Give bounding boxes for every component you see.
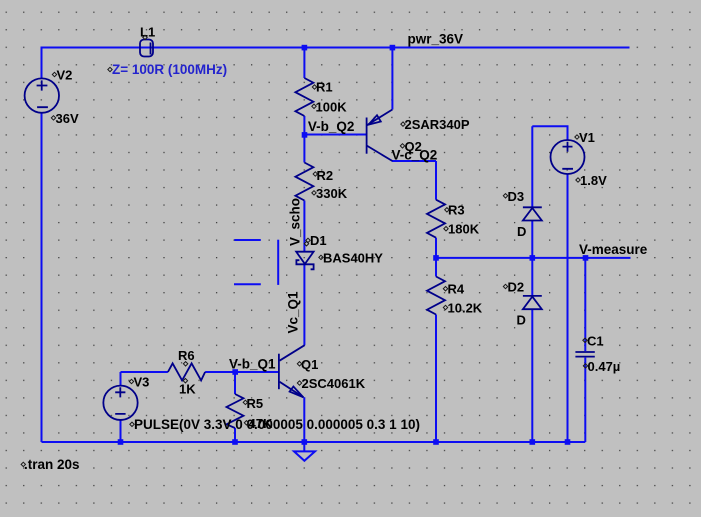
ground xyxy=(294,442,315,461)
node junction rail V3 xyxy=(118,439,124,445)
diode D3 xyxy=(523,207,542,220)
diode D1 schottky xyxy=(296,252,313,270)
svg-text:R2: R2 xyxy=(317,168,334,183)
svg-text:L1: L1 xyxy=(140,24,155,39)
wire R5 leads xyxy=(234,372,236,442)
wire Q2 emitter xyxy=(391,48,393,110)
svg-text:D3: D3 xyxy=(508,189,525,204)
wire V1 bottom xyxy=(567,174,569,442)
svg-text:V-c_Q2: V-c_Q2 xyxy=(392,147,438,162)
svg-text:Z= 100R (100MHz): Z= 100R (100MHz) xyxy=(112,62,227,77)
svg-text:V1: V1 xyxy=(579,130,595,145)
svg-text:R3: R3 xyxy=(448,203,465,218)
svg-text:V2: V2 xyxy=(57,68,73,83)
node junction V-measure C1 xyxy=(583,255,589,261)
wire top rail pwr_36V xyxy=(42,47,630,49)
node junction rail Q1 ground xyxy=(302,439,308,445)
svg-text:D: D xyxy=(517,224,526,239)
wire Q2 collector to R3 xyxy=(392,161,436,200)
svg-text:PULSE(0V 3.3V 0 0.000005 0.000: PULSE(0V 3.3V 0 0.000005 0.000005 0.3 1 … xyxy=(134,417,420,432)
svg-text:.tran 20s: .tran 20s xyxy=(24,457,80,472)
node junction rail D2 xyxy=(530,439,536,445)
svg-text:C1: C1 xyxy=(587,333,604,348)
anchor diamonds xyxy=(21,35,588,466)
voltage source V3 xyxy=(103,386,137,420)
transistor Q2 PNP xyxy=(367,110,393,162)
svg-text:pwr_36V: pwr_36V xyxy=(408,32,464,47)
wire V1 top xyxy=(532,126,567,140)
resistor R4 xyxy=(427,277,445,315)
wire V2 bottom to rail xyxy=(41,113,43,442)
svg-text:Vc_Q1: Vc_Q1 xyxy=(285,291,300,334)
wire V3 leads xyxy=(120,372,122,442)
wire Q2 base xyxy=(304,134,366,136)
svg-text:0.47µ: 0.47µ xyxy=(588,359,621,374)
node junction pwr_36V R1 xyxy=(302,45,308,51)
svg-text:V_scho: V_scho xyxy=(287,198,302,246)
wire D2 leads xyxy=(531,258,533,442)
resistor R1 xyxy=(295,78,313,116)
capacitor C1 xyxy=(575,352,594,357)
svg-text:V-measure: V-measure xyxy=(579,242,648,257)
diode D2 xyxy=(523,296,542,309)
wire R1 leads xyxy=(303,48,305,135)
svg-text:36V: 36V xyxy=(56,111,79,126)
node junction V-measure R3 R4 xyxy=(433,255,439,261)
svg-text:R4: R4 xyxy=(448,282,465,297)
wire stray segment A xyxy=(234,239,260,241)
voltage source V2 xyxy=(25,78,59,112)
wire Q1 emitter to rail xyxy=(303,397,305,442)
svg-text:100K: 100K xyxy=(316,99,348,114)
node junction V-b_Q1 xyxy=(232,369,238,375)
inductor L1 xyxy=(140,40,153,57)
svg-text:1.8V: 1.8V xyxy=(580,173,607,188)
node junction V-measure D2 xyxy=(530,255,536,261)
wire D3 leads xyxy=(531,126,533,258)
resistor R2 xyxy=(295,163,313,201)
wire R6 to Q1 base xyxy=(205,371,279,373)
svg-text:180K: 180K xyxy=(448,222,480,237)
node junction rail R4 xyxy=(433,439,439,445)
svg-text:D: D xyxy=(517,313,526,328)
wire V2 top lead xyxy=(41,47,43,79)
voltage source V1 xyxy=(551,140,585,174)
node junction pwr_36V Q2 emitter xyxy=(390,45,396,51)
svg-text:D2: D2 xyxy=(508,280,525,295)
svg-text:2SAR340P: 2SAR340P xyxy=(405,117,470,132)
wire V-measure xyxy=(436,257,631,259)
svg-text:R5: R5 xyxy=(247,396,264,411)
resistor R5 xyxy=(227,394,244,428)
transistor Q1 NPN xyxy=(279,345,305,397)
wire R4 leads xyxy=(435,258,437,442)
svg-text:D1: D1 xyxy=(310,233,327,248)
resistor R6 xyxy=(168,363,205,380)
svg-text:1K: 1K xyxy=(179,381,196,396)
wire R3 bottom lead xyxy=(435,238,437,258)
node junction rail R5 xyxy=(232,439,238,445)
wire R2 leads xyxy=(303,135,305,252)
svg-text:BAS40HY: BAS40HY xyxy=(323,250,383,265)
wire V3 to R6 xyxy=(121,371,168,373)
svg-text:2SC4061K: 2SC4061K xyxy=(302,376,366,391)
svg-text:V-b_Q2: V-b_Q2 xyxy=(308,119,355,134)
svg-text:330K: 330K xyxy=(316,186,348,201)
svg-text:V3: V3 xyxy=(134,375,150,390)
wire D1 cathode to Q1 collector xyxy=(303,264,305,345)
svg-text:Q1: Q1 xyxy=(301,357,318,372)
wire stray segment B xyxy=(277,240,279,285)
node junction rail V1 xyxy=(565,439,571,445)
node junction V-b_Q2 xyxy=(302,132,308,138)
svg-text:V-b_Q1: V-b_Q1 xyxy=(229,356,276,371)
svg-text:10.2K: 10.2K xyxy=(448,301,483,316)
wire C1 leads xyxy=(584,258,586,442)
resistor R3 xyxy=(427,200,445,238)
svg-text:R1: R1 xyxy=(316,80,333,95)
wire bottom rail xyxy=(42,441,586,443)
wire stray segment C xyxy=(234,283,261,285)
svg-text:R6: R6 xyxy=(178,348,195,363)
